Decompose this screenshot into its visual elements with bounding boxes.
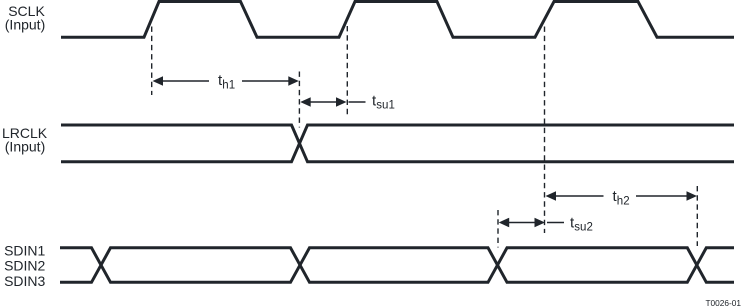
svg-text:(Input): (Input) — [5, 139, 45, 155]
waveform SCLK — [61, 2, 734, 38]
label tsu2 — [570, 214, 593, 233]
label th1 — [218, 72, 235, 91]
svg-text:SDIN3: SDIN3 — [4, 273, 45, 289]
label LRCLK (Input) — [2, 125, 48, 155]
arrowhead tsu1 left — [300, 97, 311, 107]
dimension arrow th2 shaft — [549, 195, 693, 197]
svg-text:su2: su2 — [574, 222, 593, 234]
label tsu1 — [372, 92, 395, 111]
svg-text:h1: h1 — [222, 79, 235, 91]
svg-text:h2: h2 — [617, 195, 630, 207]
dashed guide at LRCLK transition (x=299.4) — [298, 72, 300, 128]
svg-text:SDIN2: SDIN2 — [4, 258, 45, 274]
dashed guide at SCLK rising edge 1 (x=151.7) — [151, 27, 153, 96]
dashed guide at SCLK rising edge 2 (x=347.3) — [346, 26, 348, 118]
label th2 — [613, 188, 630, 207]
arrowhead th2 left — [546, 191, 557, 201]
waveform SDIN bus line A — [60, 248, 734, 282]
dimension arrow tsu2 shaft — [501, 222, 542, 224]
arrowhead tsu1 right — [336, 97, 347, 107]
arrowhead th1 left — [153, 76, 164, 86]
dashed guide at SDIN transition 4 (x=697.3) — [696, 186, 698, 246]
arrowhead th1 right — [288, 76, 299, 86]
dimension arrow tsu1 shaft — [303, 101, 344, 103]
dashed guide at SDIN transition 3 (x=498) — [497, 210, 499, 248]
waveform SDIN bus line B — [60, 248, 734, 282]
label leader line tsu2 — [547, 222, 564, 224]
arrowhead tsu2 right — [535, 218, 546, 228]
svg-text:T0026-01: T0026-01 — [705, 298, 741, 307]
arrowhead tsu2 left — [499, 218, 510, 228]
svg-text:su1: su1 — [376, 100, 395, 112]
waveform LRCLK line low-to-high — [61, 125, 734, 162]
label SDIN1 SDIN2 SDIN3 — [4, 243, 45, 289]
dashed guide at SCLK rising edge 3 (x=544.5) — [544, 27, 546, 234]
label SCLK (Input) — [5, 3, 46, 33]
svg-text:(Input): (Input) — [5, 17, 45, 33]
svg-text:SDIN1: SDIN1 — [4, 243, 45, 259]
arrowhead th2 right — [687, 191, 698, 201]
dimension arrow th1 shaft — [156, 80, 295, 82]
waveform LRCLK line high-to-low — [61, 125, 734, 162]
label leader line tsu1 — [349, 101, 366, 103]
